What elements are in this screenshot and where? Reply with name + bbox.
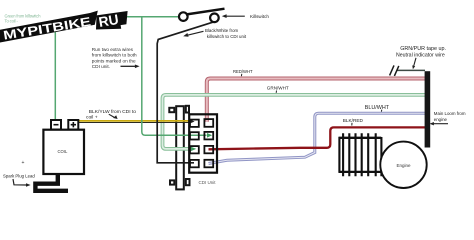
svg-text:RED/WHT: RED/WHT [233,69,253,74]
svg-text:Black/White from: Black/White from [205,28,239,33]
svg-text:CDI Unit: CDI Unit [199,180,217,185]
svg-text:from killswitch to both: from killswitch to both [92,53,137,58]
pin row4 right [204,160,213,168]
CDI connector body [189,114,217,172]
svg-text:Neutral indicator wire: Neutral indicator wire [396,52,445,58]
svg-text:killswitch to CDI unit: killswitch to CDI unit [207,34,247,39]
wire BLU/WHT from CDI row4 right pin to main loom [209,113,426,163]
svg-text:CDI unit.: CDI unit. [92,64,110,69]
magneto stator [339,138,384,172]
svg-text:Killswitch: Killswitch [250,14,269,19]
wire BLK/RED from CDI row3 right pin to main loom [209,127,426,149]
rail tab bottom-right [186,179,190,185]
arrowhead green into CDI row2 right pin [207,133,212,138]
pin row3 right [204,146,213,153]
pin row2 right [204,132,213,140]
pin row1 left [190,120,199,127]
ignition coil [43,130,84,174]
pin row3 left [190,146,199,153]
svg-text:COIL: COIL [58,149,68,154]
logo mypitbike banner [0,11,128,43]
svg-text:points marked on the: points marked on the [92,58,136,63]
coil plus terminal [68,120,78,130]
wire RED/WHT from CDI row1 right pin to main loom [207,79,425,122]
wire GRN/WHT from main loom to CDI row3 left pin [163,95,426,149]
pin row4 left [190,160,199,167]
CDI rail (plug side) [176,106,184,189]
spark plug lead [35,174,68,191]
pin row2 left [190,132,199,139]
coil minus terminal [51,120,61,130]
rail tab bottom-left [170,180,174,184]
tape slash marks on loom [390,65,399,76]
pin row1 right [204,119,213,127]
wire green from killswitch to logo text (top horizontal) [125,16,180,18]
arrow to yellow wire [109,114,115,117]
arrowhead green into CDI row3 left pin [191,147,196,151]
svg-text:engine: engine [434,117,448,122]
svg-text:GRN/WHT: GRN/WHT [267,86,289,91]
arrow from note to wires [121,65,137,67]
svg-text:To coil -: To coil - [5,19,19,24]
rail tab top-right [186,106,189,113]
svg-text:Engine: Engine [397,163,412,168]
svg-text:coil +: coil + [86,115,98,121]
arrow to spark plug lead [13,179,27,185]
wire BLK/WHT from killswitch to CDI row4 left pin [157,22,215,163]
svg-text:BLK/YLW from CDI to: BLK/YLW from CDI to [89,109,136,115]
svg-text:+: + [22,160,25,166]
killswitch [179,12,188,21]
wire green branch down from T to CDI row2 [142,17,207,136]
wire GRN/PUR taped up stub [397,69,426,71]
wire BLK/YLW from coil + to CDI row1 left pin [79,120,189,122]
svg-text:GRN/PUR tape up.: GRN/PUR tape up. [400,46,446,52]
svg-text:BLU/WHT: BLU/WHT [365,105,390,111]
svg-text:Main Loom from: Main Loom from [434,111,466,116]
main loom bar [425,71,431,147]
arrow to killswitch [226,15,245,17]
rail tab top-left [169,108,174,112]
svg-text:Spark Plug Lead: Spark Plug Lead [3,174,35,179]
svg-text:BLK/RED: BLK/RED [343,118,364,123]
arrow to taped wire [414,58,416,67]
arrowhead black on yellow wire into row1 left pin [189,119,194,123]
arrow from main loom label to bar [433,123,448,125]
wire green to coil minus terminal [54,29,56,120]
engine [380,142,426,188]
svg-text:RU: RU [97,11,119,30]
arrow to black/white wire [188,31,204,35]
svg-text:Run two extra wires: Run two extra wires [92,47,134,52]
